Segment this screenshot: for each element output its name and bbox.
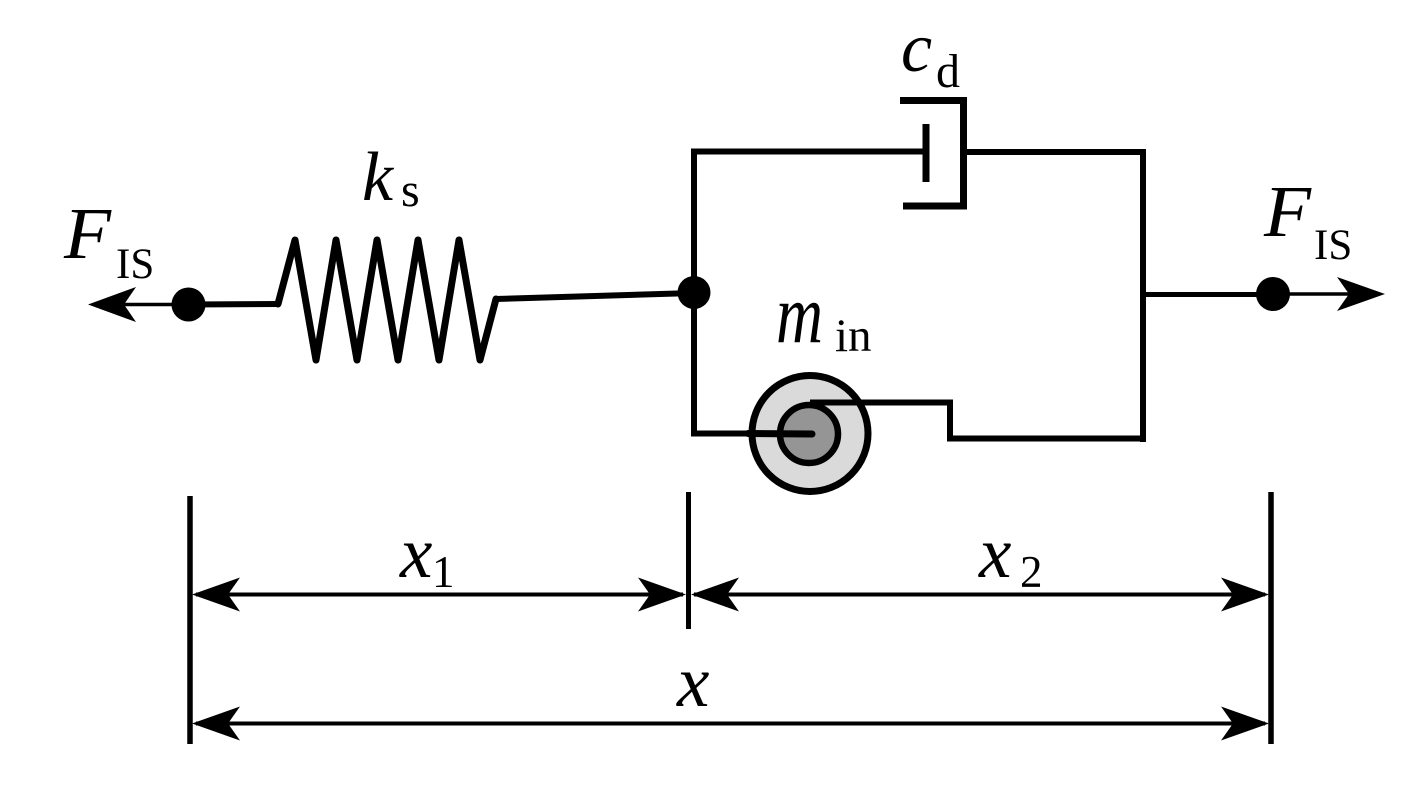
damper c_d cylinder	[900, 97, 967, 206]
wire axle into hub	[748, 430, 812, 438]
wire right vertical	[1140, 149, 1146, 442]
force arrow F_IS left	[88, 287, 188, 322]
damper c_d piston plate	[923, 124, 930, 182]
svg-text:x: x	[676, 641, 709, 722]
inerter m_in flywheel outer disc	[752, 376, 868, 492]
svg-text:k: k	[362, 139, 395, 216]
svg-text:x: x	[978, 512, 1011, 593]
svg-text:d: d	[936, 45, 960, 98]
svg-text:1: 1	[432, 547, 455, 597]
svg-text:IS: IS	[116, 241, 154, 288]
spring k_s	[278, 240, 496, 360]
wire tangent rack with step	[810, 403, 1146, 439]
label k_s	[362, 139, 420, 217]
wire output right	[1143, 292, 1273, 297]
svg-text:F: F	[63, 193, 113, 274]
label x2	[978, 512, 1043, 597]
dimension arrow x	[192, 707, 1269, 741]
dimension tick middle	[686, 492, 691, 629]
wire bottom left to flywheel axle	[691, 431, 750, 437]
dimension tick right	[1268, 492, 1274, 744]
inerter m_in flywheel hub	[780, 405, 838, 463]
node junction	[678, 276, 711, 309]
wire spring to node junction	[496, 293, 694, 299]
svg-text:F: F	[1263, 171, 1313, 252]
svg-text:c: c	[901, 10, 932, 87]
svg-text:s: s	[401, 164, 420, 217]
label F_IS left	[63, 193, 154, 288]
dimension arrow x1	[192, 578, 686, 612]
dimension arrow x2	[691, 578, 1269, 612]
wire left vertical riser	[691, 152, 697, 437]
label c_d	[901, 10, 960, 98]
force arrow F_IS right	[1273, 277, 1385, 311]
label F_IS right	[1263, 171, 1352, 269]
dimension tick left	[187, 496, 193, 744]
wire top rail right (damper rod right)	[964, 149, 1147, 155]
svg-text:IS: IS	[1314, 222, 1352, 269]
label m_in	[776, 268, 872, 362]
wire top rail left (damper rod)	[691, 149, 926, 155]
svg-text:x: x	[399, 512, 432, 593]
terminal node right	[1256, 277, 1290, 311]
svg-text:2: 2	[1020, 547, 1043, 597]
terminal node left	[172, 288, 206, 322]
wire left node to spring	[189, 301, 279, 308]
svg-text:in: in	[835, 310, 872, 362]
label x1	[399, 512, 455, 597]
svg-text:m: m	[776, 268, 823, 361]
